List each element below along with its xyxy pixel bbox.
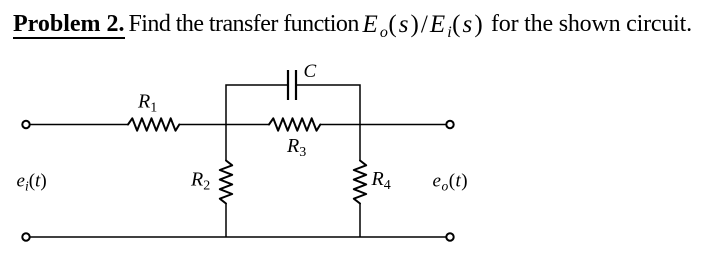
wire: node A up to capacitor branch bbox=[226, 85, 288, 125]
svg-text:R3: R3 bbox=[286, 135, 306, 160]
terminal: input bottom-left bbox=[22, 233, 29, 240]
wire: bottom rail bbox=[31, 236, 446, 238]
wire: node B down to R4 bbox=[359, 125, 361, 161]
svg-text:ei(t): ei(t) bbox=[17, 171, 47, 194]
svg-text:eo(t): eo(t) bbox=[433, 171, 469, 194]
wire: R2 to bottom wire bbox=[225, 204, 227, 238]
resistor R3 bbox=[269, 118, 320, 130]
capacitor C bbox=[288, 70, 296, 100]
wire: node B to top-right terminal bbox=[360, 124, 446, 126]
svg-text:C: C bbox=[304, 61, 317, 82]
svg-text:R4: R4 bbox=[371, 168, 391, 193]
terminal: input top-left bbox=[22, 121, 29, 128]
terminal: output bottom-right bbox=[446, 233, 453, 240]
resistor R4 bbox=[354, 161, 366, 204]
wire: node A to R3 bbox=[226, 124, 269, 126]
wire: R1 to node A bbox=[179, 124, 226, 126]
svg-text:R2: R2 bbox=[190, 169, 210, 194]
wire: capacitor to right vertical of cap branch bbox=[296, 85, 360, 125]
resistor R1 bbox=[128, 118, 179, 130]
resistor R2 bbox=[220, 161, 232, 204]
wire: R4 to bottom wire bbox=[359, 204, 361, 238]
wire: top-left terminal to R1 bbox=[31, 124, 129, 126]
title text bbox=[13, 12, 125, 36]
wire: R3 to node B bbox=[320, 124, 360, 126]
terminal: output top-right bbox=[446, 121, 453, 128]
wire: node A down to R2 bbox=[225, 125, 227, 161]
svg-text:R1: R1 bbox=[137, 91, 157, 116]
